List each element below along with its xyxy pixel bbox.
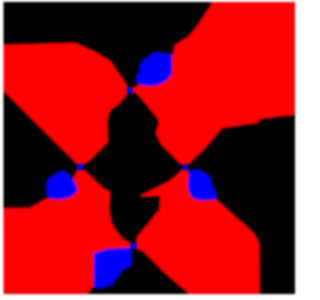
red blob D bottom-right xyxy=(136,169,259,293)
red blob C bottom-left xyxy=(4,170,131,294)
red blob B top-right xyxy=(132,2,295,165)
blue saddle dot S2 xyxy=(77,164,83,170)
blue saddle dot S4 xyxy=(131,243,137,249)
blue blob G middle-left xyxy=(47,171,77,199)
red blob A top-left xyxy=(4,43,128,164)
blue saddle dot S1 xyxy=(127,88,133,94)
blue blob Dm middle-right xyxy=(188,171,216,201)
blue saddle dot S3 xyxy=(183,165,188,170)
blue blob F bottom-center xyxy=(94,248,132,288)
blue blob E top-right xyxy=(137,53,172,86)
